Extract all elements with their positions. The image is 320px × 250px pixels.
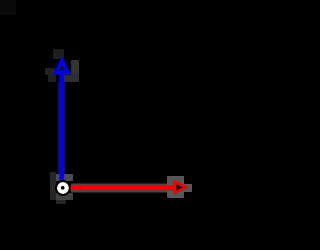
faint corner artifact block — [0, 0, 16, 15]
artifact blocks around red arrowhead — [167, 176, 192, 198]
artifact halo along red shaft — [71, 184, 174, 193]
blue arrowhead (hollow) — [56, 61, 68, 73]
origin center dot — [61, 186, 65, 190]
artifact blocks around origin — [50, 172, 73, 204]
artifact blocks around blue arrowhead — [45, 49, 79, 82]
origin circle — [56, 181, 70, 195]
red arrowhead (hollow) — [175, 182, 186, 193]
artifact halo along blue shaft — [58, 82, 66, 181]
red axis shaft — [70, 186, 175, 191]
blue axis shaft — [59, 73, 64, 181]
